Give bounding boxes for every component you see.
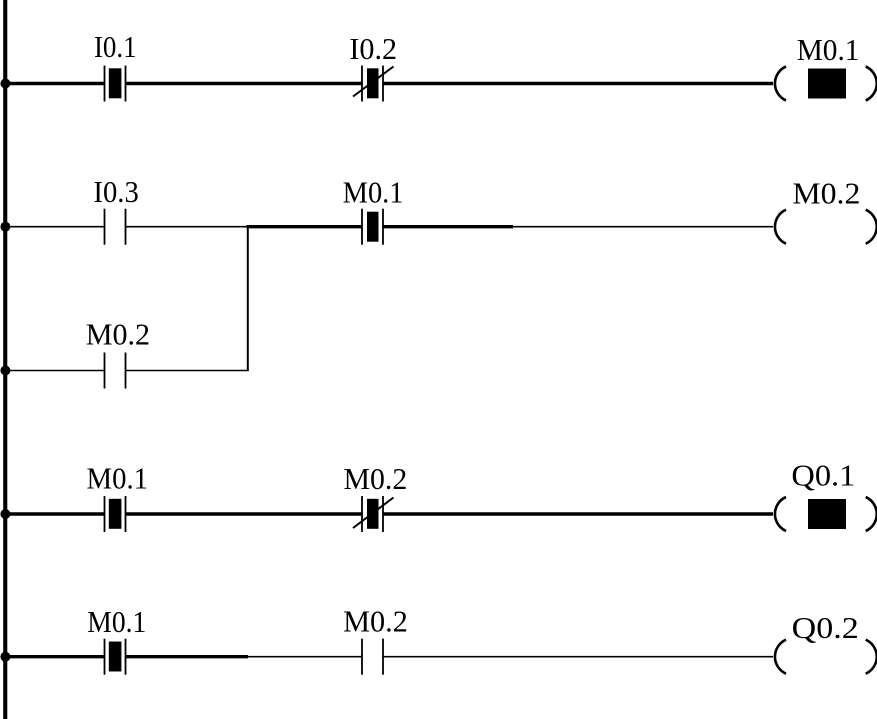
svg-text:I0.2: I0.2 <box>349 31 397 66</box>
svg-text:M0.2: M0.2 <box>86 317 150 352</box>
svg-text:M0.1: M0.1 <box>87 460 149 495</box>
svg-text:M0.2: M0.2 <box>343 604 408 639</box>
svg-text:Q0.2: Q0.2 <box>792 610 859 645</box>
svg-text:I0.3: I0.3 <box>93 174 138 209</box>
svg-text:M0.1: M0.1 <box>87 604 146 639</box>
svg-text:Q0.1: Q0.1 <box>791 457 855 492</box>
svg-text:I0.1: I0.1 <box>94 29 137 64</box>
svg-text:M0.2: M0.2 <box>792 176 860 211</box>
svg-text:M0.1: M0.1 <box>797 32 860 67</box>
svg-text:M0.1: M0.1 <box>343 174 404 209</box>
svg-text:M0.2: M0.2 <box>344 461 408 496</box>
